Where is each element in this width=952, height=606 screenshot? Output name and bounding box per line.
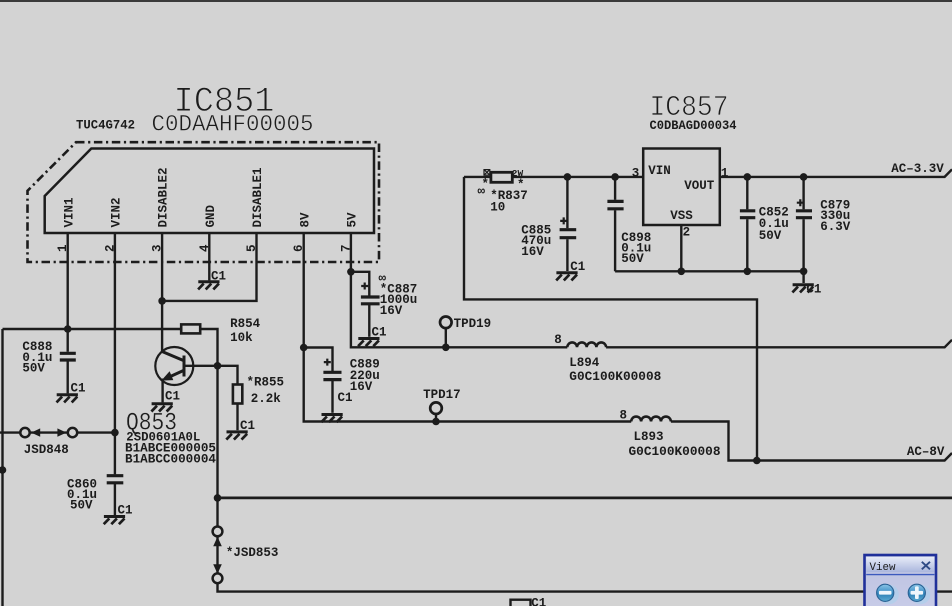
svg-text:8: 8 (620, 408, 628, 422)
junction dot C879 rail node (800, 268, 808, 276)
wire IC851 pin6 8V rail down, right, down to AC-8V edge (304, 233, 952, 461)
capacitor C860 plates (107, 476, 124, 483)
svg-text:3: 3 (632, 167, 640, 181)
svg-text:8: 8 (554, 333, 562, 347)
zoom-out minus sign (879, 591, 892, 595)
svg-text:10k: 10k (230, 331, 253, 345)
svg-text:VOUT: VOUT (684, 179, 715, 193)
wire IC857 pin2 VSS stub (680, 225, 682, 271)
ground under R855 (226, 432, 247, 440)
wire C860 bottom lead to ground (114, 484, 116, 515)
wire 5V node to C887 (351, 272, 369, 296)
wire C888 bottom lead to ground (66, 362, 68, 394)
svg-text:C1: C1 (240, 419, 255, 433)
ground under C885 (556, 273, 577, 281)
svg-text:50V: 50V (621, 252, 644, 266)
svg-text:TPD19: TPD19 (454, 317, 492, 331)
wire TPD17 stem (435, 414, 437, 422)
junction dot AC-8V node (753, 457, 761, 465)
jumper JSD853 top circle (213, 527, 223, 537)
wire IC851 pin7 5V down and right to page edge (351, 233, 952, 347)
svg-text:6.3V: 6.3V (820, 220, 851, 234)
svg-text:VIN: VIN (648, 164, 671, 178)
top dark bar (0, 0, 952, 2)
fusible mark box near R837 (484, 170, 490, 176)
View window separator (866, 574, 934, 576)
View window frame (865, 555, 937, 606)
svg-text:4: 4 (198, 244, 212, 252)
View window close X (922, 562, 930, 570)
junction dot pin3/pin5 node (158, 297, 166, 305)
svg-text:50V: 50V (22, 361, 45, 375)
inductor L894 coil (567, 342, 606, 347)
wire JSD853 link between jumper circles (216, 536, 218, 574)
wire IC851 pin3 to Q853 collector (161, 233, 163, 353)
wire left rail horizontal to R854 (3, 328, 182, 330)
connector JSD848 left circle (20, 428, 29, 437)
wire 8V node to C889 (304, 348, 333, 372)
junction dot JSD853 top node (214, 494, 222, 502)
wire C889 bottom lead to ground (331, 381, 333, 413)
IC857 body (643, 149, 720, 226)
svg-text:C1: C1 (118, 504, 133, 518)
svg-text:TPD17: TPD17 (423, 388, 461, 402)
wire C887 bottom lead to ground (368, 305, 370, 337)
inductor L893 coil (631, 417, 671, 422)
capacitor C885 plus sign (560, 217, 567, 224)
wire JSD853 bottom to long bottom net (218, 583, 952, 591)
wire IC851 pin1 to C888 node (66, 233, 68, 352)
svg-text:2: 2 (683, 225, 691, 239)
IC851 dash-dot outline (28, 142, 380, 262)
junction dot VSS rail node (678, 268, 686, 276)
jumper JSD853 bottom circle (213, 573, 223, 583)
ground under IC851 pin4 (198, 282, 219, 290)
svg-text:5: 5 (245, 244, 259, 252)
svg-text:GND: GND (204, 204, 218, 227)
transistor Q853 base bar (183, 356, 186, 377)
junction dot C885 node (564, 173, 572, 181)
capacitor C889 plus sign (324, 359, 331, 366)
wire left rail vertical (1, 329, 3, 606)
svg-text:2: 2 (103, 244, 117, 252)
wire JSD848 right lead to pin2 line (77, 431, 115, 433)
wire full width net at y=498 (218, 496, 952, 499)
svg-text:16V: 16V (350, 380, 373, 394)
svg-text:6: 6 (292, 244, 306, 252)
resistor R854 body (181, 324, 200, 333)
capacitor C889 plates (polarized) (323, 372, 341, 379)
junction dot left rail node (0, 466, 6, 474)
junction dot C898 node (611, 173, 619, 181)
svg-text:C1: C1 (806, 282, 821, 296)
zoom-out button glow (879, 585, 899, 605)
svg-text:DISABLE1: DISABLE1 (251, 167, 265, 227)
wire C885 top lead (566, 177, 568, 228)
resistor R837 body (491, 172, 512, 182)
svg-text:G0C100K00008: G0C100K00008 (629, 445, 721, 459)
svg-text:VIN2: VIN2 (110, 197, 124, 227)
wire IC851 pin5 down and left to pin3 line (162, 233, 256, 301)
connector JSD848 left arrowhead (31, 428, 40, 436)
svg-text:∞: ∞ (478, 184, 486, 198)
capacitor C888 plates (60, 353, 76, 360)
svg-text:C1: C1 (165, 390, 180, 404)
wire C852 bottom lead (746, 219, 748, 271)
wire TPD19 stem (445, 328, 447, 347)
zoom-in plus sign (911, 591, 924, 595)
svg-text:2.2k: 2.2k (251, 392, 282, 406)
svg-text:16V: 16V (521, 245, 544, 259)
svg-text:C1: C1 (338, 391, 353, 405)
wire C898 top lead (614, 177, 616, 200)
wire C879 bottom lead through rail to ground (802, 219, 804, 283)
jumper JSD853 up arrowhead (213, 537, 222, 547)
junction dot 8V/C889 node (300, 344, 308, 352)
connector JSD848 right circle (68, 428, 77, 437)
wire IC857 VOUT to AC-3.3V page edge (720, 169, 952, 177)
svg-text:R854: R854 (230, 317, 261, 331)
svg-text:C0DAAHF00005: C0DAAHF00005 (152, 112, 314, 138)
zoom-out button (877, 584, 894, 601)
junction dot TPD19 node (442, 344, 450, 352)
wire C885 bottom lead to ground (566, 239, 568, 271)
svg-text:1: 1 (56, 244, 70, 252)
resistor R855 body (233, 385, 242, 404)
component box at bottom edge (511, 600, 531, 606)
wire C898 bottom lead to ground rail (614, 210, 616, 271)
svg-text:5V: 5V (346, 212, 360, 228)
wire R854 right lead down to base node (200, 329, 218, 366)
svg-text:50V: 50V (759, 229, 782, 243)
junction dot C888 node (64, 325, 72, 333)
svg-text:C1: C1 (372, 326, 387, 340)
junction dot C852 rail node (744, 268, 752, 276)
svg-text:C1: C1 (71, 382, 86, 396)
svg-text:L894: L894 (569, 356, 600, 370)
wire AC-8V feed: from R837 corner down, across, down to AC-8V line (464, 177, 757, 461)
connector JSD848 right arrowhead (57, 428, 66, 436)
svg-text:C1: C1 (531, 597, 546, 606)
wire C852 top lead (746, 177, 748, 209)
svg-text:8V: 8V (298, 212, 312, 228)
zoom-in button glow (911, 585, 931, 605)
wire IC851 pin2 to JSD848/C860 node (114, 233, 116, 474)
svg-text:16V: 16V (380, 304, 403, 318)
View window title bar (866, 557, 934, 572)
junction dot 5V/C887 node (347, 268, 355, 276)
capacitor C879 plus sign (797, 199, 804, 206)
wire JSD848 middle link (30, 431, 68, 433)
svg-text:C1: C1 (211, 270, 226, 284)
capacitor C885 plates (polarized) (560, 230, 577, 238)
junction dot TPD17 node (432, 418, 440, 426)
svg-text:B1ABCC000004: B1ABCC000004 (125, 453, 217, 467)
svg-text:C1: C1 (570, 260, 585, 274)
svg-text:TUC4G742: TUC4G742 (76, 119, 135, 133)
capacitor C887 plates (polarized) (361, 297, 380, 304)
svg-text:G0C100K00008: G0C100K00008 (569, 370, 661, 384)
wire R837 output to IC857 VIN (513, 176, 644, 178)
capacitor C879 plates (polarized) (796, 211, 812, 218)
svg-text:50V: 50V (70, 499, 93, 513)
ground under C889 (321, 415, 342, 423)
svg-text:VIN1: VIN1 (62, 197, 76, 227)
wire C879 top lead (802, 177, 804, 209)
svg-text:View: View (870, 562, 896, 574)
svg-text:7: 7 (339, 244, 353, 252)
transistor Q853 collector stroke (162, 352, 184, 361)
jumper JSD853 down arrowhead (213, 564, 222, 574)
junction dot base/R855 node (214, 362, 222, 370)
transistor Q853 emitter arrowhead (161, 371, 173, 380)
svg-text:L893: L893 (634, 430, 664, 444)
wire JSD848 left lead from page edge (0, 431, 20, 433)
svg-text:*JSD853: *JSD853 (226, 546, 279, 560)
svg-text:DISABLE2: DISABLE2 (157, 167, 171, 227)
svg-text:*R855: *R855 (247, 376, 285, 390)
wire base node down to JSD853 (216, 366, 218, 527)
junction dot C852 top node (744, 173, 752, 181)
svg-text:VSS: VSS (670, 209, 693, 223)
ground under Q853 emitter (151, 404, 172, 412)
wire IC851 pin4 to ground (208, 233, 210, 280)
test point TPD19 ring (440, 317, 452, 329)
svg-text:AC–8V: AC–8V (907, 445, 945, 459)
wire Q853 base to node (185, 365, 218, 367)
svg-text:C0DBAGD00034: C0DBAGD00034 (650, 119, 737, 133)
test point TPD17 ring (430, 402, 442, 414)
ground under C887 (358, 339, 379, 347)
ground under C888 (56, 395, 77, 403)
svg-text:1: 1 (721, 167, 729, 181)
wire R855 bottom lead to ground (236, 404, 238, 431)
capacitor C898 plates (607, 201, 623, 208)
svg-text:3: 3 (151, 244, 165, 252)
transistor Q853 emitter lead (161, 379, 163, 403)
op-amp IC851 body (45, 149, 374, 234)
wire node to R855 (218, 366, 238, 385)
ground under C879 (792, 285, 813, 293)
junction dot C879 top node (800, 173, 808, 181)
capacitor C852 plates (740, 211, 755, 218)
svg-text:10: 10 (490, 201, 505, 215)
ground under C860 (104, 517, 125, 525)
transistor Q853 emitter stroke (167, 370, 185, 378)
svg-text:JSD848: JSD848 (24, 443, 69, 457)
junction dot JSD848/pin2 node (111, 429, 119, 437)
wire IC857 ground rail (615, 270, 804, 272)
wire R837 input segment (464, 176, 491, 178)
zoom-in button (908, 584, 925, 601)
svg-text:AC–3.3V: AC–3.3V (891, 162, 944, 176)
capacitor C887 plus sign (361, 283, 368, 290)
transistor Q2 Q853 circle (155, 347, 193, 385)
